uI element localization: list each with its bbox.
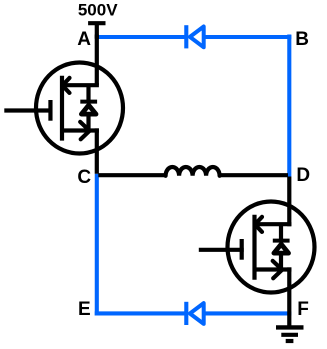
- Q1 body-diode cathode lead: [86, 84, 90, 102]
- Q2 source arrow: [273, 261, 282, 278]
- wire Q1 source to C: [95, 128, 99, 173]
- diode D1: [190, 27, 204, 48]
- wire B to D (right blue rail): [287, 35, 291, 177]
- Q2 gate lead: [199, 248, 244, 252]
- Q1 drain tap: [60, 83, 99, 87]
- wire D2 to F (bottom blue right): [203, 311, 291, 315]
- Q2 source tap: [253, 267, 292, 271]
- wire D to Q2 drain: [287, 177, 291, 227]
- Q2 body-diode cathode bar: [273, 239, 290, 243]
- Q2 channel: [252, 215, 256, 280]
- Q2 drain arrow: [255, 217, 262, 232]
- transistor Q1: [4, 63, 123, 154]
- Q2 body circle: [228, 202, 315, 293]
- Q1 body-diode anode lead: [86, 114, 90, 133]
- wire E to D2 (bottom blue left): [95, 311, 187, 315]
- wire L1 to D: [219, 173, 288, 177]
- ground: [276, 327, 304, 341]
- svg-text:A: A: [77, 29, 91, 50]
- svg-text:C: C: [77, 167, 91, 188]
- Q1 body-diode triangle: [81, 105, 96, 114]
- Q1 source tap: [60, 128, 99, 132]
- diode D2: [190, 303, 204, 324]
- Q1 drain arrow: [62, 78, 69, 93]
- power supply 500V terminal: [88, 21, 105, 25]
- wire C to E (left blue rail): [95, 174, 99, 316]
- Q2 body-diode cathode lead: [279, 223, 283, 241]
- wire A to Q1 drain: [95, 35, 99, 86]
- Q2 gate bar: [240, 239, 244, 260]
- Q1 gate lead: [4, 108, 52, 112]
- svg-text:F: F: [297, 299, 309, 320]
- svg-text:D: D: [296, 165, 310, 186]
- Q1 body circle: [36, 63, 123, 154]
- wire D1 to B: [203, 35, 291, 39]
- Q1 source arrow: [80, 122, 89, 139]
- inductor L1: [166, 167, 220, 176]
- wire C to L1: [98, 173, 166, 177]
- wire Q2 source to F: [287, 267, 291, 329]
- diode D1 cathode bar: [184, 25, 188, 48]
- diode D2 cathode bar: [184, 302, 188, 325]
- transistor Q2: [199, 202, 315, 293]
- wire A to D1 (top blue): [97, 35, 187, 39]
- svg-text:500V: 500V: [78, 1, 118, 20]
- svg-text:B: B: [295, 29, 309, 50]
- Q1 gate bar: [48, 100, 52, 121]
- svg-text:E: E: [78, 299, 91, 320]
- Q1 body-diode cathode bar: [80, 100, 97, 104]
- Q2 drain tap: [253, 222, 292, 226]
- wire 500V to A: [95, 23, 99, 39]
- Q1 channel: [60, 76, 64, 141]
- Q2 body-diode triangle: [274, 244, 289, 253]
- Q2 body-diode anode lead: [279, 253, 283, 272]
